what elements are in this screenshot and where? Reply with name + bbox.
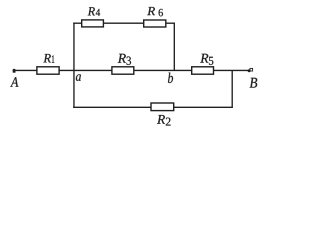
label R6-6 <box>159 9 163 16</box>
label R3-R <box>118 54 126 63</box>
wire vertical node b up <box>173 23 175 71</box>
wire vertical right junction down <box>231 70 233 108</box>
resistor R4 <box>82 20 104 27</box>
wire top rail left of R4 <box>73 22 82 24</box>
wire A to R1 <box>15 69 37 71</box>
resistor R2 <box>151 103 174 111</box>
label R2-R <box>157 115 165 124</box>
wire R1 to R3 through node a <box>59 69 112 71</box>
label A <box>10 77 18 86</box>
wire vertical through node a <box>73 23 75 108</box>
wire top rail R4 to R6 <box>103 22 143 24</box>
resistor R5 <box>192 67 214 74</box>
terminal B dot <box>248 69 251 72</box>
label R1-1 <box>52 55 54 62</box>
wire bottom rail left of R2 <box>73 106 151 108</box>
wire bottom rail right of R2 <box>174 106 233 108</box>
resistor R3 <box>112 67 134 74</box>
resistor R1 <box>37 67 59 74</box>
label R6-R <box>147 7 155 15</box>
terminal A square <box>13 70 16 73</box>
resistor R6 <box>144 20 166 27</box>
label R2-2 <box>166 118 171 126</box>
label R3-3 <box>127 57 131 65</box>
label R4-R <box>88 7 95 15</box>
wire R5 to B through junction <box>214 69 250 71</box>
label R4-4 <box>96 9 100 16</box>
wire R3 to R5 through node b <box>134 69 192 71</box>
label R1-R <box>43 54 51 62</box>
label a <box>76 74 81 81</box>
label B <box>250 78 258 88</box>
label R5-5 <box>209 57 213 65</box>
wire top rail R6 to corner <box>166 22 175 24</box>
label b <box>168 73 173 83</box>
label R5-R <box>200 54 208 63</box>
terminal A dot <box>13 69 16 72</box>
terminal B square <box>250 68 253 71</box>
